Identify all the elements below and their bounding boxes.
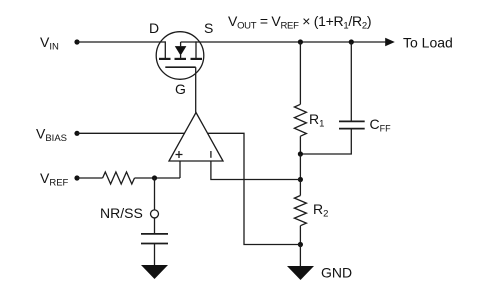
- wire VREF to resistor: [77, 177, 103, 179]
- svg-text:VIN: VIN: [40, 34, 59, 53]
- svg-text:G: G: [175, 81, 186, 97]
- wire VREF node down to NR/SS terminal: [154, 178, 156, 210]
- terminal dot VREF: [74, 175, 79, 180]
- wire resistor to junction: [135, 177, 181, 179]
- svg-text:CFF: CFF: [370, 116, 392, 134]
- capacitor CFF: [339, 121, 365, 128]
- resistor R1: [294, 104, 306, 136]
- wire junction up to op-amp noninverting input: [179, 161, 181, 178]
- junction dot CFF top: [349, 39, 354, 44]
- transistor Q1 source channel segment: [191, 58, 203, 60]
- svg-text:S: S: [204, 20, 213, 36]
- wire op-amp ground return: [207, 133, 300, 244]
- To Load arrowhead: [385, 38, 395, 47]
- wire Q1 source to load rail: [181, 41, 389, 43]
- wire to feedback node: [299, 154, 301, 180]
- wire NR/SS to capacitor: [154, 218, 156, 234]
- capacitor CNR: [141, 234, 168, 244]
- wire VIN to Q1 drain: [77, 41, 165, 43]
- ground symbol below CNR: [141, 265, 168, 279]
- open terminal NR/SS: [151, 210, 159, 218]
- wire capacitor to ground: [154, 244, 156, 266]
- wire R2 bottom to ground: [299, 245, 301, 267]
- wire feedback node to R2: [299, 180, 301, 196]
- wire R1 bottom: [299, 136, 301, 154]
- svg-text:GND: GND: [321, 265, 352, 281]
- op-amp noninverting pin mark +: [176, 151, 183, 158]
- transistor Q1 drain bar: [164, 41, 166, 58]
- transistor Q1 PMOS pass FET body circle: [156, 32, 204, 80]
- svg-text:D: D: [149, 20, 159, 36]
- transistor Q1 body stub: [180, 42, 182, 58]
- resistor R2: [294, 196, 306, 226]
- wire feedback to op-amp inverting input: [211, 161, 301, 180]
- svg-text:To Load: To Load: [403, 35, 453, 51]
- svg-text:VOUT = VREF × (1+R1/R2): VOUT = VREF × (1+R1/R2): [228, 13, 371, 32]
- ground symbol GND: [287, 266, 314, 280]
- svg-text:R1: R1: [309, 111, 324, 130]
- wire op-amp output to Q1 gate: [195, 67, 197, 112]
- svg-text:VBIAS: VBIAS: [36, 126, 67, 145]
- junction dot R2 bottom: [298, 242, 303, 247]
- junction dot feedback node: [298, 177, 303, 182]
- terminal dot VIN: [74, 39, 79, 44]
- wire VBIAS to op-amp: [77, 132, 185, 134]
- wire CFF bottom to R1 bottom: [300, 129, 351, 154]
- svg-text:NR/SS: NR/SS: [100, 205, 143, 221]
- svg-text:VREF: VREF: [40, 170, 69, 189]
- transistor Q1 body arrow: [175, 46, 187, 56]
- junction dot R1 CFF bottom: [298, 151, 303, 156]
- transistor Q1 drain channel segment: [159, 58, 171, 60]
- transistor Q1 middle channel segment: [175, 58, 187, 60]
- terminal dot VBIAS: [74, 131, 79, 136]
- op-amp inverting pin mark -: [210, 151, 212, 158]
- junction dot VOUT at R1 top: [298, 39, 303, 44]
- op-amp U1 error amplifier: [169, 113, 223, 162]
- svg-text:R2: R2: [313, 201, 328, 220]
- junction dot VREF node: [152, 175, 157, 180]
- wire VOUT down to R1: [299, 42, 301, 104]
- transistor Q1 source bar: [195, 41, 197, 58]
- wire R2 bottom: [299, 226, 301, 245]
- resistor RREF series: [103, 172, 135, 184]
- transistor Q1 gate plate: [165, 66, 195, 68]
- wire CFF top: [350, 42, 352, 121]
